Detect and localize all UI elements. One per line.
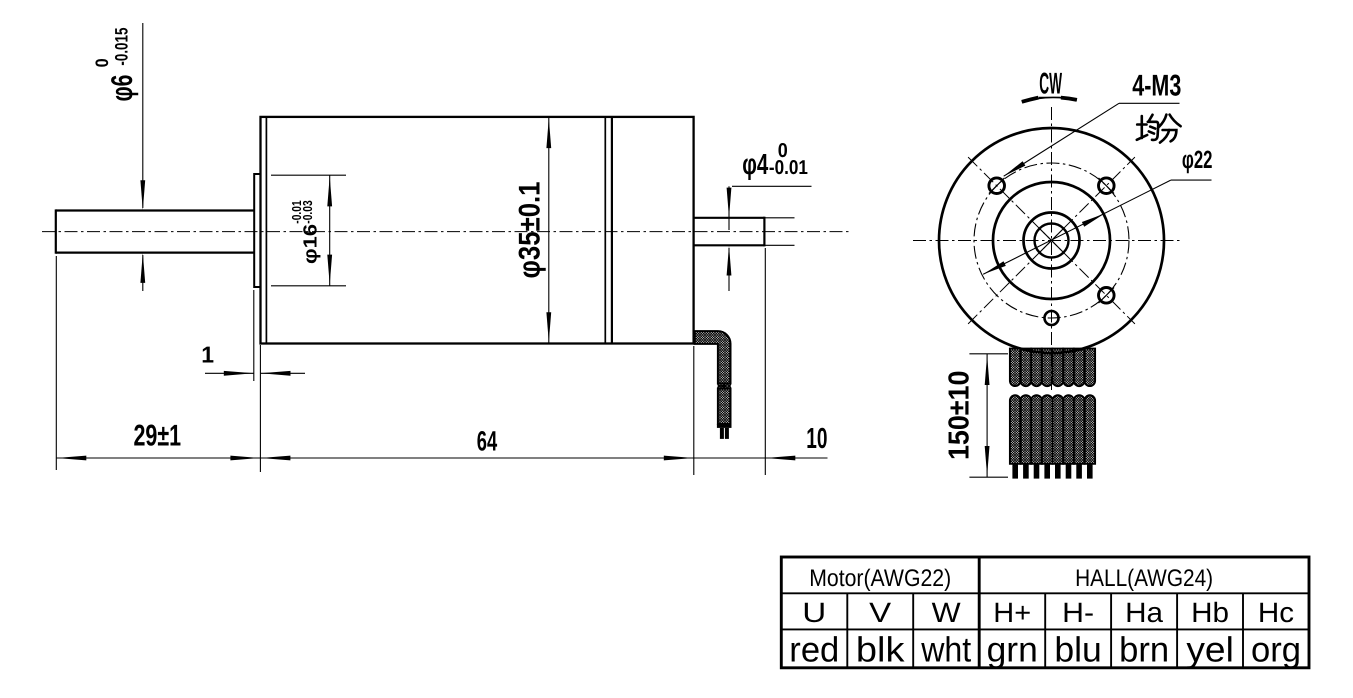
extension lines bottom dims [55, 256, 57, 470]
svg-text:φ4: φ4 [742, 149, 768, 181]
svg-text:W: W [932, 597, 962, 628]
diagonal center line 135° [968, 157, 1135, 324]
svg-text:U: U [802, 597, 826, 628]
svg-text:Hc: Hc [1258, 597, 1294, 628]
shaft circle (φ6) [1035, 224, 1069, 258]
cable sheath end band [717, 424, 732, 428]
table row lines [781, 592, 1309, 594]
svg-text:H-: H- [1062, 597, 1094, 628]
svg-text:V: V [869, 597, 891, 628]
leader 4-M3 [1004, 103, 1119, 176]
dimension φ35±0.1 [548, 117, 550, 343]
svg-text:150±10: 150±10 [943, 371, 975, 461]
dimension φ6 [142, 23, 144, 208]
svg-text:HALL(AWG24): HALL(AWG24) [1075, 565, 1213, 592]
cable break caps [718, 383, 731, 387]
svg-text:10: 10 [806, 423, 827, 455]
diagonal center line 45° [968, 157, 1135, 324]
svg-text:φ22: φ22 [1182, 146, 1213, 174]
mounting hole M3 bottom-right [1099, 288, 1115, 304]
front view horizontal center line [913, 240, 1182, 242]
svg-text:Motor(AWG22): Motor(AWG22) [809, 565, 951, 592]
svg-text:yel: yel [1186, 631, 1234, 670]
output shaft (left, φ6) [56, 209, 254, 253]
motor body (64 long, φ35) [261, 117, 694, 344]
svg-text:blu: blu [1054, 631, 1102, 670]
mounting hole M3 top-right [1099, 178, 1115, 194]
svg-text:1: 1 [201, 342, 214, 368]
svg-text:-0.03: -0.03 [300, 200, 315, 223]
mounting hole M3 top-left [989, 178, 1005, 194]
svg-text:φ6: φ6 [106, 75, 139, 102]
table column lines [846, 593, 848, 668]
front view vertical center line [1051, 107, 1053, 390]
pin hole bottom [1045, 311, 1059, 325]
svg-text:wht: wht [920, 631, 971, 670]
bearing boss circle [1024, 213, 1080, 269]
svg-text:0: 0 [778, 140, 788, 162]
svg-text:Hb: Hb [1191, 597, 1229, 628]
svg-text:grn: grn [987, 631, 1038, 670]
rear shaft edge extension stubs [764, 217, 794, 219]
center line (side view axis) [42, 231, 852, 233]
svg-text:φ16: φ16 [300, 224, 321, 264]
body rear cover lines [604, 117, 606, 344]
dimension φ16 [271, 174, 346, 176]
wire tips (front view) [1012, 464, 1092, 479]
svg-text:H+: H+ [993, 597, 1031, 628]
dimension line 29±1 / 64 / 10 [56, 457, 827, 459]
pilot boss circle [993, 182, 1110, 299]
leader φ22 [983, 180, 1171, 274]
lead-wire cable (side view, hatched L-tube) [695, 331, 731, 383]
dimension 150±10 [969, 353, 1008, 355]
bundle lower section [1010, 395, 1095, 464]
rear shaft (φ4, 10 long) [694, 217, 765, 247]
svg-text:φ35±0.1: φ35±0.1 [514, 182, 547, 279]
bolt circle φ22 (dash-dot) [974, 163, 1129, 318]
dimension φ4 [732, 185, 812, 187]
svg-text:blk: blk [856, 631, 905, 670]
motor body outline circle (φ35) [939, 128, 1164, 353]
wire table [781, 557, 1309, 668]
svg-text:Ha: Ha [1125, 597, 1163, 628]
svg-text:64: 64 [477, 426, 498, 457]
svg-text:org: org [1251, 631, 1301, 670]
wire tips (side view) [720, 428, 724, 439]
svg-text:-0.01: -0.01 [769, 157, 808, 179]
svg-text:0: 0 [92, 58, 112, 67]
svg-text:29±1: 29±1 [134, 420, 182, 453]
svg-text:CW: CW [1039, 68, 1062, 101]
shaft cross mark [1040, 229, 1064, 253]
CW rotation arrow [1022, 97, 1077, 101]
svg-text:4-M3: 4-M3 [1132, 69, 1181, 102]
svg-text:red: red [789, 631, 839, 670]
svg-text:-0.015: -0.015 [112, 28, 132, 66]
svg-text:brn: brn [1119, 631, 1169, 670]
cable lower section (side view) [718, 389, 731, 424]
label 均分 (equally spaced) drawn strokes [1137, 115, 1181, 143]
front flange boss (φ16, 1mm) [254, 174, 260, 287]
lead-wire bundle (front view, 8 hatched strands) [1010, 349, 1095, 387]
body front cover line [265, 117, 267, 344]
dimension 1 (flange thickness) [253, 290, 255, 381]
